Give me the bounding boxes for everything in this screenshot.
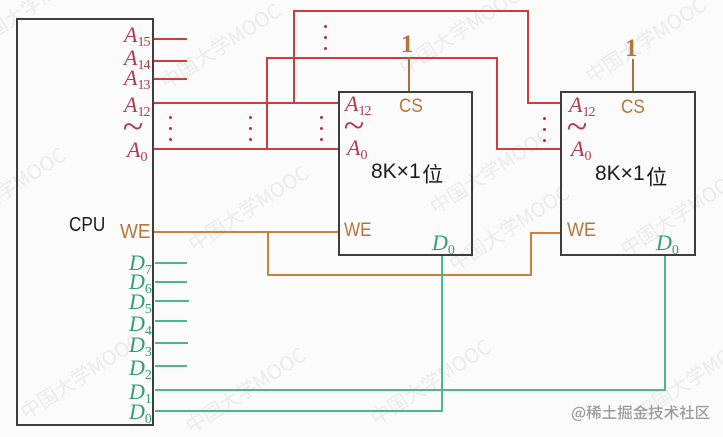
CS constant 1 label for U1: [401, 32, 414, 57]
CS constant 1 label for U2: [625, 36, 638, 61]
U2 tilde: [567, 108, 588, 146]
memory chip U1 (8K x 1 bit): [338, 91, 473, 256]
U2 pin label WE: [567, 221, 596, 240]
CPU pin label A12: [124, 94, 149, 116]
wire A12 bus CPU to U1: [154, 102, 338, 104]
wire D5 stub: [155, 300, 189, 302]
wire D7 stub: [155, 262, 187, 264]
U1 pin label CS: [399, 97, 423, 116]
wire A0 bus CPU to U1: [154, 148, 338, 150]
CPU pin label D5: [129, 291, 152, 313]
U1 tilde: [344, 107, 365, 145]
wire D3 stub: [155, 342, 188, 344]
wire D1 run to U2: [155, 389, 666, 391]
wire A0 drop to U2: [496, 57, 498, 150]
CPU tilde: [123, 108, 144, 146]
U2 pin label A0: [571, 138, 590, 160]
wire A12 into U2: [527, 102, 560, 104]
CPU pin label D7: [129, 252, 152, 274]
U1 pin label A0: [347, 137, 366, 159]
CPU box: [16, 18, 154, 426]
wire A12 branch riser: [293, 10, 295, 104]
wire WE into U2: [530, 232, 560, 234]
U1 label 8Kx1bit: [371, 161, 421, 182]
U2 pin label D0: [656, 232, 679, 254]
U1 pin label A12: [345, 93, 370, 115]
wire WE CPU to U1: [154, 231, 338, 233]
CPU pin label D2: [129, 357, 152, 379]
U2 label 8Kx1bit: [595, 163, 645, 184]
wire D2 stub: [155, 365, 187, 367]
wire A0 branch riser: [266, 57, 268, 150]
wire D0 run to U1: [155, 410, 443, 412]
wire CS1 stub: [408, 57, 410, 91]
juejin community watermark: [572, 405, 710, 421]
CPU pin label D3: [129, 334, 152, 356]
CPU pin label D1: [129, 381, 152, 403]
wire A15 stub: [154, 38, 187, 40]
wire WE riser to U2: [530, 232, 532, 276]
CPU label: [69, 215, 105, 235]
CPU pin label D4: [129, 313, 152, 335]
wire A14 stub: [154, 60, 187, 62]
wire A0 top run: [266, 57, 498, 59]
wire CS2 stub: [632, 59, 634, 91]
wire D1 riser to U2 D0: [664, 256, 666, 391]
wire A12 top run: [293, 10, 529, 12]
wire WE under run: [267, 274, 532, 276]
CPU pin label WE: [120, 222, 151, 242]
CPU pin label D0: [129, 401, 152, 423]
memory chip U2 (8K x 1 bit): [560, 91, 696, 256]
U2 pin label A12: [569, 94, 594, 116]
wire A0 into U2: [496, 148, 560, 150]
bus dots column 3: [320, 116, 323, 119]
wire A13 stub: [154, 78, 187, 80]
bus dots column top: [324, 25, 327, 28]
CPU pin label A15: [124, 24, 149, 46]
CPU pin label A0: [127, 139, 146, 161]
U1 pin label D0: [432, 232, 455, 254]
wire D4 stub: [155, 320, 187, 322]
U1 pin label WE: [344, 221, 372, 240]
wire WE branch drop: [267, 231, 269, 276]
CPU pin label D6: [129, 271, 152, 293]
CPU pin label A13: [124, 67, 149, 89]
U2 label CJK bit glyph: [647, 167, 666, 186]
wire D0 riser to U1 D0: [441, 256, 443, 412]
wire D6 stub: [155, 281, 187, 283]
bus dots column U2: [543, 117, 546, 120]
U2 pin label CS: [621, 98, 645, 117]
U1 label CJK bit glyph: [423, 164, 442, 183]
bus dots column 1: [169, 116, 172, 119]
CPU pin label A14: [124, 47, 149, 69]
bus dots column 2: [249, 116, 252, 119]
wire A12 drop to U2: [527, 10, 529, 104]
